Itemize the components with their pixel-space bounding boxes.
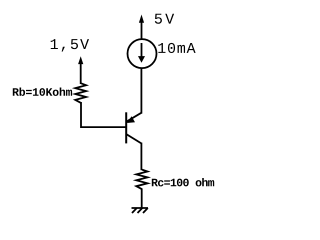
power arrow 5V <box>139 15 144 23</box>
current source I1 <box>128 39 157 68</box>
label 1,5V supply <box>51 39 89 52</box>
wire current source to 5V arrow <box>141 23 143 40</box>
label Rb=10Kohm <box>13 87 72 95</box>
wire collector to Rc <box>140 143 142 171</box>
resistor Rc <box>136 170 147 190</box>
label 5V supply <box>155 14 174 24</box>
resistor Rb <box>75 83 86 103</box>
label 10mA <box>158 43 195 53</box>
transistor Q1 base bar <box>125 112 127 143</box>
wire Rc to ground <box>141 189 143 209</box>
transistor Q1 emitter diagonal with arrow <box>127 113 142 123</box>
wire Rb bottom to base <box>81 102 127 127</box>
transistor Q1 collector diagonal <box>127 134 142 143</box>
ground <box>132 208 149 213</box>
wire emitter to current source <box>140 69 142 114</box>
power arrow 1,5V <box>78 56 83 84</box>
label Rc=100 ohm <box>152 178 214 186</box>
